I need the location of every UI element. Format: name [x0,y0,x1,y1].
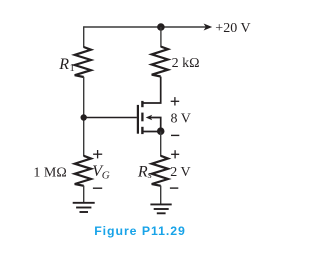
label minus VG [93,187,102,189]
wire drain vertical [160,76,162,103]
label plus VDS [171,97,180,105]
node gate junction dot [81,114,87,120]
wire right column bottom [160,186,162,205]
svg-text:1 MΩ: 1 MΩ [33,166,66,181]
arrowhead to +20 V supply [204,24,213,31]
transistor MOSFET [84,77,161,134]
svg-text:s: s [148,169,152,181]
svg-text:1: 1 [70,63,75,74]
svg-text:8 V: 8 V [171,112,191,127]
svg-text:2 kΩ: 2 kΩ [172,56,200,71]
wire source lead [142,131,160,133]
label minus Rs [170,187,178,189]
wire top rail [84,26,206,28]
svg-text:R: R [137,163,148,180]
wire left column middle [83,77,85,156]
label plus Rs [171,150,179,158]
wire source vertical [160,132,162,157]
resistor Rs [152,156,168,186]
ground right [150,204,171,213]
wire right column top [160,27,162,47]
resistor 1 Mohm (VG) [75,156,91,186]
label plus VG [93,150,102,158]
node drain-rail junction dot [157,23,165,31]
wire gate lead [84,117,137,119]
wire drain lead [142,77,160,103]
svg-text:+20 V: +20 V [215,21,250,36]
gate bar [137,105,139,134]
channel segment body [141,113,143,122]
svg-text:Figure P11.29: Figure P11.29 [94,224,186,238]
body arrowhead [146,115,153,120]
resistor 2 kohm [152,47,168,77]
svg-text:R: R [58,56,69,73]
node source junction dot [157,127,165,135]
svg-text:2 V: 2 V [170,165,190,180]
channel segment drain-side [141,101,143,107]
wire left column bottom [83,186,85,203]
ground left [73,203,95,212]
wire body lead [151,118,161,132]
label minus VDS [171,134,179,136]
wire left column top [83,26,85,47]
svg-text:G: G [102,170,110,182]
channel segment source-side [141,127,143,134]
resistor R1 [75,47,91,77]
